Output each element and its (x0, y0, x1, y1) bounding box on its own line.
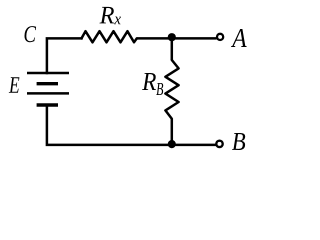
label E (9, 77, 20, 93)
label C (25, 26, 37, 42)
junction node (top, Rx / RB / A) (168, 33, 176, 41)
terminal B (open circle) (216, 141, 222, 147)
wire: top junction down to RB (171, 37, 174, 60)
resistor Rx (horizontal zigzag) (82, 31, 137, 42)
wire: battery negative down and along bottom to terminal B (47, 105, 216, 145)
terminal A (open circle) (217, 34, 223, 40)
label B (232, 133, 245, 150)
battery E plate: bottom short (37, 103, 58, 106)
wire: RB down to bottom junction (171, 119, 174, 145)
junction node (bottom, battery / RB / B) (168, 140, 176, 148)
battery E plate: top long (27, 72, 69, 75)
label A (231, 29, 247, 47)
wire: Rx to terminal A (137, 37, 217, 40)
resistor RB (vertical zigzag) (165, 60, 178, 119)
label Rx (100, 7, 121, 24)
battery E plate: upper short (37, 82, 58, 85)
label RB (142, 73, 163, 95)
battery E plate: lower long (27, 92, 69, 95)
wire: top-left corner from node C down to battery + top wire to Rx (47, 38, 82, 73)
